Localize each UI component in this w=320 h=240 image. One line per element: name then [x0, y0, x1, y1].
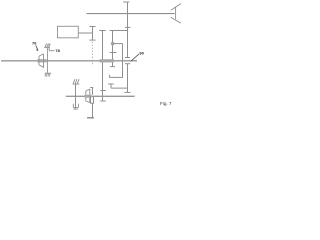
svg-text:76: 76 — [32, 40, 37, 45]
output stem — [92, 103, 94, 117]
wheel fork symbol — [171, 4, 181, 24]
brake baseline — [73, 83, 80, 85]
housing baseline above brake — [44, 47, 49, 49]
control box — [58, 26, 79, 38]
top shaft line — [87, 13, 175, 15]
dotted link — [92, 42, 94, 66]
brake stem — [75, 84, 77, 107]
brake bottom bar — [45, 72, 51, 74]
gear shaft T2 — [99, 31, 105, 102]
svg-text:90: 90 — [139, 50, 144, 55]
gear cone 76 — [39, 54, 44, 68]
output end cap — [87, 117, 94, 119]
hatching below brake — [45, 74, 50, 77]
label 78 with tick — [49, 50, 54, 52]
counter gear cone — [86, 89, 90, 103]
counter shaft — [66, 95, 135, 97]
svg-text:78: 78 — [55, 48, 60, 53]
link line box to clutch — [78, 32, 92, 34]
leader to label 90 — [131, 54, 139, 61]
gear shaft T3 — [110, 31, 128, 67]
node dot on T3 — [111, 42, 115, 46]
vertical shaft V1 upper — [123, 2, 130, 58]
main shaft — [1, 60, 137, 62]
tee T5 — [108, 84, 127, 88]
hatching below cup — [74, 108, 77, 110]
svg-text:Fig. 7: Fig. 7 — [160, 101, 172, 106]
hub on main shaft left — [37, 59, 46, 62]
link H2 — [113, 43, 123, 45]
brake plates 78 — [47, 44, 49, 73]
hub on counter shaft — [85, 95, 92, 98]
clutch C0 — [89, 27, 95, 41]
vertical V4 with corner — [110, 44, 123, 78]
counter gear plate — [90, 88, 93, 95]
one-way cup on counter shaft — [90, 97, 94, 104]
brake on counter shaft: hatching — [73, 79, 79, 84]
one-way cup — [73, 104, 78, 108]
hub on main shaft center — [100, 59, 114, 62]
vertical shaft V1 lower — [124, 64, 130, 93]
hatching above brake — [45, 43, 51, 47]
